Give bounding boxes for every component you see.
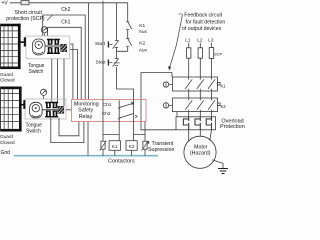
tongue switch 1 tongue (guard mounted) [21,41,25,43]
svg-text:+V: +V [2,1,9,7]
contactor K1 linkage symbol [163,82,168,87]
guard 1 (fence grid) [0,26,18,66]
wire Ch1 loop [48,27,82,99]
contactor K2 terminal nub [218,103,221,106]
svg-text:Guard: Guard [0,72,13,77]
svg-text:L1: L1 [185,38,191,43]
svg-text:Safety: Safety [78,108,93,114]
svg-text:of output devices: of output devices [182,26,222,32]
relay output contact Ch2 [119,113,134,118]
svg-text:Switch: Switch [29,69,44,75]
wire +V drop to relay [87,3,89,100]
contactor coil K2 [126,141,137,151]
wire ground rail (teal) [14,155,158,157]
svg-text:Contactors: Contactors [108,159,135,165]
wire switch1 to switch2 channel links [52,59,64,106]
svg-text:K1: K1 [139,23,145,29]
wire L3 [211,43,213,80]
svg-text:Guard: Guard [0,134,13,139]
tongue switch 2 contact line [42,109,58,111]
fuse L3 [209,48,214,59]
svg-text:L2: L2 [197,38,203,43]
tongue switch 1 actuation-direction symbol [41,27,47,33]
wire between aux contacts [127,30,129,39]
wire to stop [116,51,118,58]
overload protection box [176,117,216,130]
contactor K1 terminal nub [218,82,221,85]
svg-text:Supression: Supression [148,147,175,153]
relay output contact Ch1 [119,103,133,108]
svg-text:Protection: Protection [220,124,245,130]
tongue switch 1 actuator head (hatched) [60,44,67,52]
svg-text:Closed: Closed [0,78,15,83]
svg-text:Aux: Aux [139,47,148,53]
svg-text:(Hazard): (Hazard) [190,150,211,156]
transient suppressor 1 [102,1,104,156]
wire start output hook [117,46,128,51]
svg-text:Feedback circuit: Feedback circuit [184,13,222,19]
wire aux chain drop [127,3,129,22]
overload element 3 [206,117,211,130]
wire +V top rail [10,2,128,4]
svg-text:Closed: Closed [0,140,15,145]
svg-text:Gnd: Gnd [1,150,11,156]
tongue switch 1 body [26,36,70,59]
ground symbol [218,169,228,174]
contactor K2 linkage symbol [163,103,168,108]
wire L2 [199,43,201,80]
svg-text:Monitoring: Monitoring [74,101,99,107]
svg-text:Ch2: Ch2 [61,7,70,13]
wire switch2 to relay stub [66,109,72,111]
leader arrow from feedback note [170,15,183,68]
tongue switch 2 tongue (guard mounted) [22,104,25,106]
wire stop output to relay [117,67,134,100]
leader from SCP label to fuse [47,15,53,21]
contact K1 aux (NC) [126,22,129,30]
svg-text:SCP: SCP [214,51,223,56]
svg-text:Relay: Relay [79,114,93,120]
svg-text:Stop: Stop [96,59,106,65]
overload element 1 [183,117,188,130]
overload element 2 [195,117,200,130]
wire start/stop chain drop [116,3,118,41]
wire overload to motor [189,130,212,142]
wire coil K2 to ground rail [131,150,133,155]
wire feedback loop [141,73,176,130]
pushbutton stop (NC) [115,59,118,66]
wire motor to earth [212,160,223,169]
contactor K1 contacts [185,79,215,89]
wire coil tie bar right [134,122,145,135]
tongue switch 2 actuator head (hatched) [58,106,64,114]
svg-text:Ch1: Ch1 [61,19,70,25]
tongue switch 2 actuation-direction symbol [41,89,47,95]
contactor coil K1 [109,141,120,151]
pushbutton start (NO) [115,41,118,48]
tongue switch 1 contact line [45,45,60,47]
contactor K2 power block [173,98,218,112]
transient suppressor 2 [144,135,146,156]
tongue switch 1 cam [33,39,46,55]
svg-text:protection (SCP): protection (SCP) [6,16,45,22]
motor (hazard) [184,136,216,168]
svg-text:K2: K2 [221,104,227,109]
tongue switch 2 contacts [45,102,58,118]
svg-text:Switch: Switch [26,129,41,135]
svg-text:for fault detection: for fault detection [186,19,226,25]
wire coil tie bar left [103,134,119,136]
wire relay ground drop [87,122,89,156]
wire switch2 return loop outer [51,118,84,143]
svg-text:Aux: Aux [139,29,148,35]
tongue switch 2 cam [30,102,42,118]
wire switch2 return loop inner [59,118,79,136]
svg-text:K2: K2 [139,41,145,47]
tongue switch 1 contacts (forced guided) [47,39,60,54]
wire K2 stub to overload [176,112,178,117]
wire coil K1 to ground rail [114,150,116,155]
fuse L1 [187,48,191,58]
svg-text:L3: L3 [208,38,214,43]
guard 2 (fence grid) [0,89,19,129]
svg-text:Start: Start [95,41,106,47]
wire L1 [188,43,190,80]
label transient supression [146,141,149,144]
contactor K2 contacts [185,100,215,110]
contact K2 aux (NC) [126,38,129,46]
wire Ch2 loop [43,15,85,100]
svg-text:K2: K2 [129,144,135,149]
fuse SCP (short circuit protection) [21,1,29,5]
wire relay output 2 drop [133,100,135,141]
monitoring safety relay box (red) [72,100,147,122]
wire switch1 right exits down to relay [70,44,78,100]
contactor K1 power block [173,77,218,91]
svg-text:K1: K1 [112,144,118,149]
tongue switch 2 body [25,99,66,119]
svg-text:Ch1: Ch1 [103,102,112,107]
svg-text:K1: K1 [221,83,227,88]
fuse L2 [198,48,202,58]
wire relay output 1 drop [118,100,120,140]
